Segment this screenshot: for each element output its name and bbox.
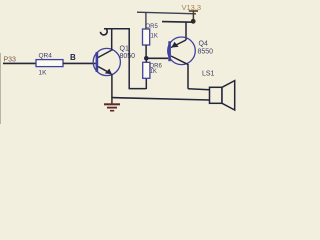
svg-text:1K: 1K	[150, 69, 157, 75]
resistor QR6	[143, 62, 163, 78]
power V13.3 terminal	[182, 3, 202, 21]
wire QR4 to Q1 base	[63, 62, 96, 64]
svg-text:1K: 1K	[39, 70, 48, 77]
wire base to Q4	[146, 57, 168, 59]
svg-text:Q4: Q4	[199, 41, 208, 48]
wire Q4 collector drop	[187, 64, 189, 89]
wire QR5 top lead	[145, 12, 147, 29]
wire P33 to QR4	[3, 62, 36, 64]
resistor QR5	[143, 24, 159, 45]
wire top horizontal	[104, 28, 129, 30]
svg-text:8550: 8550	[198, 49, 214, 56]
transistor Q1	[93, 46, 135, 76]
transistor Q4	[168, 37, 213, 65]
page left edge	[0, 53, 2, 124]
svg-text:Q1: Q1	[120, 46, 129, 53]
svg-text:QR4: QR4	[39, 53, 53, 60]
wire curl end	[100, 29, 107, 35]
speaker LS1	[202, 71, 235, 111]
svg-text:P33: P33	[4, 57, 17, 64]
wire collector to speaker	[188, 89, 210, 90]
resistor QR4	[36, 53, 63, 77]
wire QR6 top lead	[145, 58, 147, 63]
ground	[104, 98, 120, 111]
wire QR5 bottom lead	[145, 45, 147, 57]
wire Q1 emitter drop	[111, 74, 113, 98]
svg-text:B: B	[70, 53, 76, 62]
wire emitter rail	[162, 21, 193, 24]
svg-text:QR5: QR5	[146, 24, 159, 30]
wire Q4 emitter riser	[185, 22, 187, 40]
svg-text:1K: 1K	[151, 33, 158, 39]
svg-text:LS1: LS1	[202, 71, 215, 78]
wire right drop	[128, 28, 130, 89]
wire Q1 collector riser	[111, 29, 113, 51]
wire top rail	[137, 12, 196, 14]
node junction dot	[144, 56, 149, 61]
wire to QR6 bottom	[129, 88, 147, 90]
wire speaker bottom to ground	[112, 98, 210, 100]
node power junction dot	[191, 19, 196, 24]
wire QR6 bottom lead	[145, 78, 147, 89]
svg-text:8050: 8050	[120, 53, 136, 60]
